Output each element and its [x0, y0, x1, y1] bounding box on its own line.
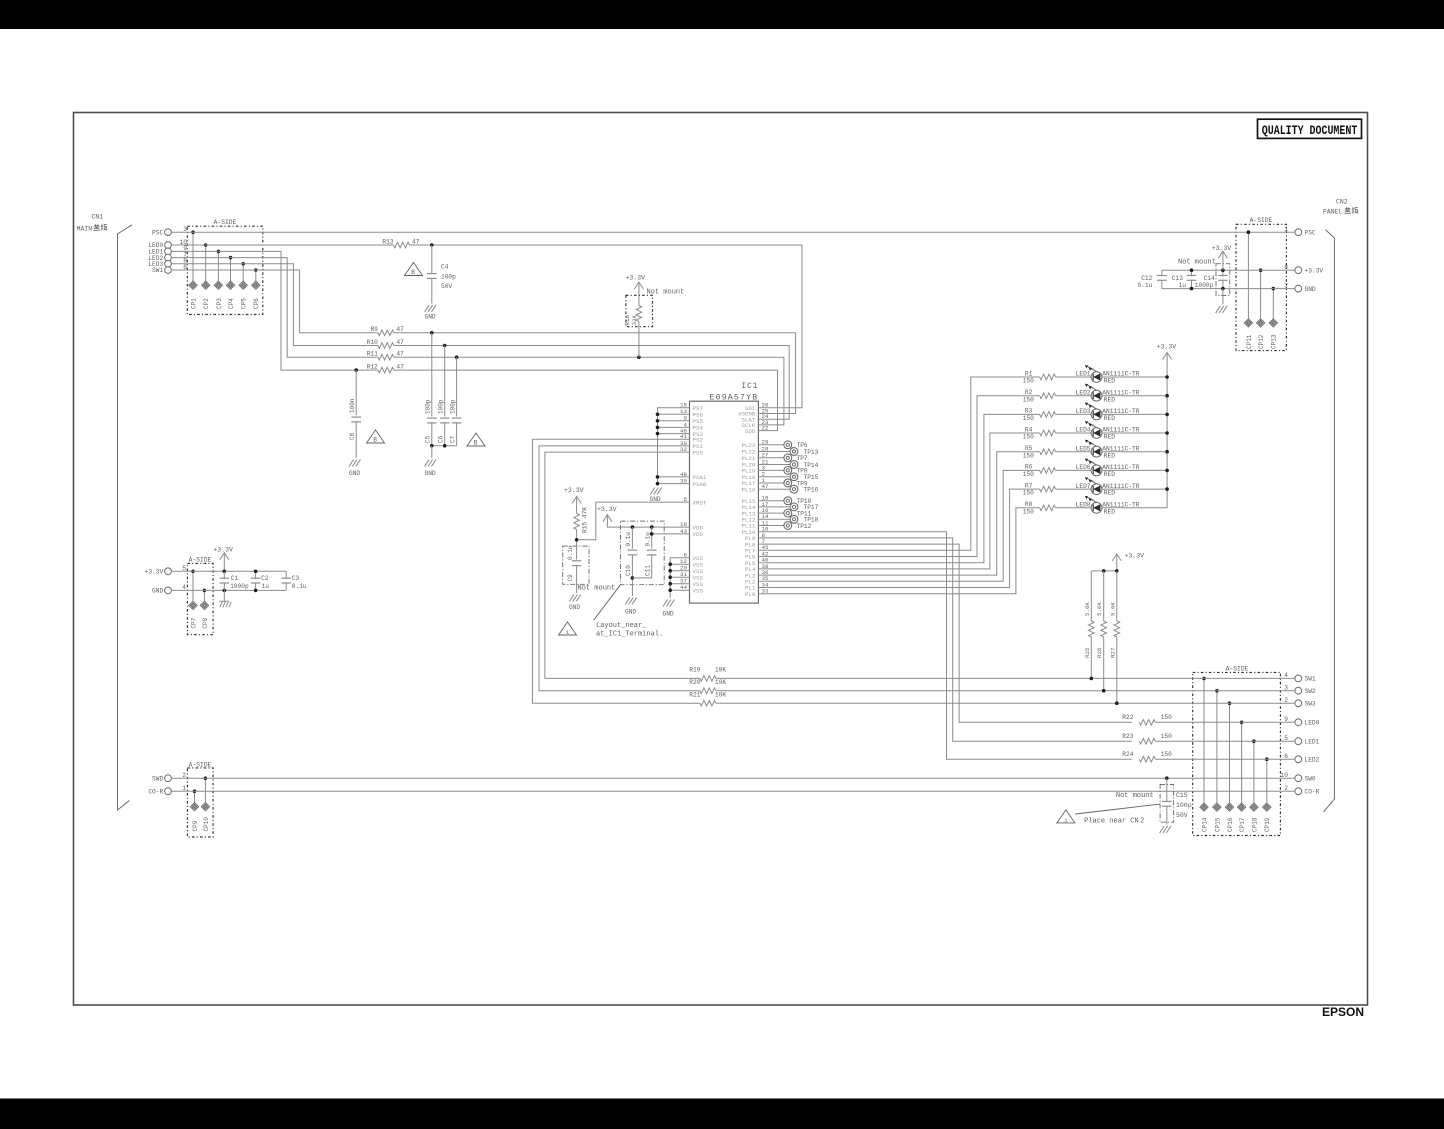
svg-text:SW1: SW1 — [1305, 676, 1316, 683]
svg-text:0.1u: 0.1u — [1138, 282, 1153, 289]
node PSC-CP11 junction — [1247, 230, 1251, 234]
resistor R11 — [378, 354, 394, 360]
svg-text:RED: RED — [1104, 508, 1115, 515]
svg-text:CP12: CP12 — [1258, 334, 1265, 349]
svg-text:5.6K: 5.6K — [1084, 602, 1091, 616]
svg-text:47: 47 — [396, 339, 404, 346]
wire LED0 row to CN2 — [1155, 721, 1295, 723]
svg-text:+3.3V: +3.3V — [564, 487, 584, 494]
warning triangle 1 place near CN2 — [1057, 810, 1075, 823]
svg-text:100p: 100p — [449, 399, 456, 414]
wire PL9 to LED1 row — [758, 538, 1131, 741]
wire PS1 to SW2 row — [539, 446, 700, 691]
IC U1 E09A57YB body — [690, 401, 759, 603]
svg-text:VSS: VSS — [693, 587, 704, 594]
svg-text:PS0: PS0 — [693, 449, 704, 456]
svg-text:C14: C14 — [1204, 275, 1215, 282]
test point TP16 — [758, 488, 790, 490]
svg-text:MAIN: MAIN — [77, 226, 93, 233]
test pad CP15 — [1216, 691, 1218, 803]
svg-text:R13: R13 — [382, 238, 393, 245]
svg-text:TP12: TP12 — [797, 523, 812, 530]
svg-text:CP13: CP13 — [1271, 334, 1278, 349]
wire R7 to LED7 — [1056, 488, 1092, 490]
svg-text:GND: GND — [425, 314, 436, 321]
svg-text:GND: GND — [650, 496, 661, 503]
svg-text:TP16: TP16 — [804, 487, 819, 494]
svg-text:TP15: TP15 — [804, 474, 819, 481]
capacitor C3 — [285, 571, 287, 579]
resistor R4 150 — [1040, 430, 1056, 436]
ground bar below C1 — [219, 601, 231, 607]
resistor R7 150 — [1040, 486, 1056, 492]
capacitor C2 — [255, 571, 257, 579]
svg-text:A-SIDE: A-SIDE — [189, 761, 212, 768]
A-SIDE test-pad box (CP11-CP13) — [1236, 224, 1286, 350]
ground below VSS bus — [663, 600, 674, 607]
schematic border frame — [74, 113, 1368, 1006]
capacitor C8 — [355, 370, 357, 415]
svg-text:CO-R: CO-R — [148, 788, 163, 795]
svg-text:GND: GND — [349, 470, 360, 477]
svg-text:LED7: LED7 — [1076, 483, 1091, 490]
resistor R16 33K — [638, 297, 640, 306]
resistor R26 5.6K — [1103, 571, 1105, 621]
svg-text:C5: C5 — [425, 435, 432, 443]
test point TP13 — [758, 451, 790, 453]
svg-text:A-SIDE: A-SIDE — [214, 219, 237, 226]
ground below C4 — [425, 305, 436, 312]
test pad CP11 — [1247, 232, 1249, 318]
CN1 pin 8 LED3 — [165, 260, 172, 267]
resistor R12 — [378, 367, 394, 373]
test pad CP6 — [255, 270, 257, 281]
test pad CP9 — [194, 791, 196, 802]
svg-text:B: B — [474, 440, 478, 447]
capacitor C7 — [456, 357, 458, 416]
svg-text:R8: R8 — [1025, 501, 1033, 508]
CN2 pin 7 GND — [1295, 285, 1302, 292]
wire R3 to LED3 — [1056, 413, 1092, 415]
wire PS0 to SW1 row — [545, 452, 700, 678]
svg-text:150: 150 — [1023, 471, 1034, 478]
CN2 pin 1 PSC — [1295, 229, 1302, 236]
svg-text:R23: R23 — [1122, 733, 1133, 740]
svg-text:R7: R7 — [1025, 482, 1033, 489]
svg-text:R2: R2 — [1025, 389, 1033, 396]
LED LED6 AN1111C-TR RED — [1091, 465, 1102, 476]
svg-text:0.1u: 0.1u — [567, 545, 574, 560]
svg-text:R6: R6 — [1025, 464, 1033, 471]
CN2 pin 5 LED1 — [1295, 738, 1302, 745]
wire IC R7 net riser — [758, 489, 1039, 587]
wire PS2 to SW3 row — [532, 439, 700, 703]
wire IC R2 net riser — [758, 396, 1039, 557]
svg-text:50V: 50V — [441, 283, 452, 290]
test pad CP8 — [203, 590, 205, 601]
svg-text:+3.3V: +3.3V — [145, 569, 164, 576]
svg-text:Layout_near_: Layout_near_ — [596, 622, 647, 630]
svg-text:150: 150 — [1023, 415, 1034, 422]
svg-text:GND: GND — [625, 609, 636, 616]
svg-text:150: 150 — [1161, 751, 1172, 758]
wire R1 to LED1 — [1056, 376, 1092, 378]
CN1 pin 7 LED2 — [165, 254, 172, 261]
svg-text:R1: R1 — [1025, 370, 1033, 377]
svg-text:+3.3V: +3.3V — [626, 275, 646, 282]
svg-text:Not mount: Not mount — [1178, 259, 1216, 267]
svg-text:PSC: PSC — [152, 229, 163, 236]
svg-text:R27: R27 — [1109, 647, 1116, 658]
resistor R10 — [378, 343, 394, 349]
ground below C9 — [569, 595, 580, 602]
capacitor C11 — [651, 527, 653, 549]
svg-text:LED5: LED5 — [1076, 445, 1091, 452]
LED LED4 AN1111C-TR RED — [1091, 428, 1102, 439]
test point TP12 — [758, 525, 784, 527]
wire SWD net (CN1 pin2 to CN2 SW0) — [171, 777, 1295, 779]
svg-text:CO-R: CO-R — [1305, 788, 1320, 795]
svg-text:A-SIDE: A-SIDE — [189, 557, 212, 564]
svg-text:RED: RED — [1104, 396, 1115, 403]
node R10-C6 junction — [443, 344, 447, 348]
connector CN1 bracket — [118, 225, 133, 810]
resistor R20 10K — [700, 688, 716, 694]
resistor R27 5.6K — [1116, 571, 1118, 621]
svg-text:1000p: 1000p — [230, 583, 249, 590]
svg-text:RED: RED — [1104, 415, 1115, 422]
svg-text:E09A57YB: E09A57YB — [709, 393, 758, 402]
svg-text:SWD: SWD — [152, 775, 163, 782]
svg-text:PL0: PL0 — [745, 591, 756, 598]
svg-text:Not mount: Not mount — [578, 585, 616, 593]
CN2 pin 4 SW1 — [1295, 675, 1302, 682]
test point TP15 — [758, 476, 790, 478]
CN2 pin 2 CO-R — [1295, 788, 1302, 795]
svg-text:C10: C10 — [625, 565, 632, 576]
test pad CP18 — [1253, 741, 1255, 803]
svg-text:Not mount: Not mount — [1116, 792, 1154, 800]
wire LED +3.3V rail — [1166, 353, 1168, 508]
svg-text:C7: C7 — [449, 435, 456, 443]
wire IC R4 net riser — [758, 433, 1039, 569]
svg-text:+3.3V: +3.3V — [1305, 267, 1324, 274]
wire LED0/SDI net: CN1 pin10 through R13 to IC SDI — [171, 244, 393, 246]
CN2 pin 9 LED0 — [1295, 719, 1302, 726]
svg-text:CP10: CP10 — [203, 817, 210, 832]
svg-text:LED3: LED3 — [1076, 408, 1091, 415]
resistor R22 150 — [1139, 720, 1155, 726]
ground below PSA bus — [650, 488, 661, 495]
resistor R21 10K — [700, 700, 716, 706]
svg-text:LED2: LED2 — [1076, 389, 1091, 396]
svg-text:CP8: CP8 — [202, 617, 209, 628]
wire SW1/XSENB net: CN1 pin6 to IC XSENB — [171, 270, 378, 333]
resistor R23 150 — [1139, 738, 1155, 744]
LED LED1 AN1111C-TR RED — [1091, 372, 1102, 383]
test pad CP5 — [242, 264, 244, 281]
test pad CP3 — [217, 251, 219, 281]
svg-text:GND: GND — [152, 588, 163, 595]
svg-text:TP14: TP14 — [804, 462, 819, 469]
LED LED3 AN1111C-TR RED — [1091, 409, 1102, 420]
test pad CP1 — [192, 232, 194, 281]
wire IC R5 net riser — [758, 452, 1039, 575]
wire IC R1 net riser — [758, 377, 1039, 550]
svg-text:R26: R26 — [1096, 647, 1103, 658]
svg-text:QUALITY DOCUMENT: QUALITY DOCUMENT — [1262, 123, 1358, 138]
svg-text:EPSON: EPSON — [1322, 1005, 1364, 1019]
test point TP7 — [758, 457, 784, 459]
svg-text:XRST: XRST — [693, 499, 707, 506]
svg-text:0.1u: 0.1u — [644, 532, 651, 547]
test point TP6 — [758, 444, 784, 446]
svg-text:0.1u: 0.1u — [625, 532, 632, 547]
wire PL10 to LED2 row — [758, 532, 1131, 760]
ground below C5-C7 — [425, 460, 436, 467]
svg-text:1u: 1u — [1179, 282, 1187, 289]
svg-text:CP19: CP19 — [1264, 817, 1271, 832]
ground below C14 — [1216, 306, 1227, 313]
test pad CP4 — [230, 258, 232, 282]
capacitor C10 — [631, 527, 633, 549]
wire LED7 to +3.3V rail — [1102, 488, 1167, 490]
svg-text:LED0: LED0 — [1305, 720, 1320, 727]
svg-text:100p: 100p — [425, 399, 432, 414]
svg-text:100p: 100p — [437, 399, 444, 414]
svg-text:RED: RED — [1104, 471, 1115, 478]
svg-text:SW0: SW0 — [1305, 775, 1316, 782]
svg-text:150: 150 — [1023, 434, 1034, 441]
svg-text:CP6: CP6 — [253, 298, 260, 309]
test point TP8 — [758, 469, 784, 471]
svg-text:33K: 33K — [631, 315, 638, 326]
wire PS7-PS3 common bus — [658, 408, 690, 486]
LED LED2 AN1111C-TR RED — [1091, 390, 1102, 401]
svg-text:at_IC1_Terminal.: at_IC1_Terminal. — [596, 631, 663, 639]
svg-text:CP7: CP7 — [190, 617, 197, 628]
wire LED3 to +3.3V rail — [1102, 413, 1167, 415]
wire SW2 row to CN2 — [716, 690, 1295, 692]
svg-text:150: 150 — [1023, 452, 1034, 459]
svg-text:C1: C1 — [231, 575, 239, 582]
wire SW3 row to CN2 — [716, 702, 1295, 704]
svg-text:C9: C9 — [567, 574, 574, 582]
test pad CP12 — [1260, 270, 1262, 318]
CN1 pin 1 CO-R — [165, 788, 172, 795]
svg-text:CN2: CN2 — [1336, 199, 1348, 206]
svg-text:RED: RED — [1104, 434, 1115, 441]
resistor R13 — [394, 242, 410, 248]
warning triangle 1 layout note — [559, 622, 577, 635]
A-SIDE test-pad box (CP14-CP19) — [1193, 672, 1281, 835]
wire LED3/SLAT net: CN1 pin8 to IC SLAT — [171, 264, 378, 346]
test pad CP16 — [1229, 703, 1231, 803]
svg-text:C15: C15 — [1176, 792, 1188, 799]
svg-text:150: 150 — [1023, 378, 1034, 385]
svg-text:CP15: CP15 — [1214, 817, 1221, 832]
capacitor C12 — [1161, 270, 1163, 276]
wire XRST net — [577, 502, 690, 540]
node R15-XRST junction — [575, 538, 579, 542]
wire IC R8 net riser — [758, 508, 1039, 594]
wire LED4 to +3.3V rail — [1102, 432, 1167, 434]
svg-text:CP1: CP1 — [190, 298, 197, 309]
svg-text:RED: RED — [1104, 452, 1115, 459]
CN1 pin 9 LED1 — [165, 248, 172, 255]
not-mount dash-dot box around C9 — [563, 546, 589, 584]
svg-text:5.6K: 5.6K — [1109, 602, 1116, 616]
wire LED1 to +3.3V rail — [1102, 376, 1167, 378]
CN2 pin 8 +3.3V — [1295, 267, 1302, 274]
svg-text:+3.3V: +3.3V — [1125, 553, 1145, 560]
svg-text:SW2: SW2 — [1305, 688, 1316, 695]
resistor R6 150 — [1040, 468, 1056, 474]
test point TP9 — [758, 482, 784, 484]
LED LED8 AN1111C-TR RED — [1091, 502, 1102, 513]
svg-text:RED: RED — [1104, 378, 1115, 385]
svg-text:0.1u: 0.1u — [292, 583, 307, 590]
node SWD-C15 junction — [1165, 776, 1169, 780]
svg-text:VDD: VDD — [693, 531, 704, 538]
svg-text:100p: 100p — [1176, 802, 1192, 809]
svg-text:1u: 1u — [262, 583, 270, 590]
test pad CP13 — [1272, 289, 1274, 319]
wire C1 ground stub — [223, 590, 225, 601]
not-mount dashed box around R16 — [626, 295, 653, 326]
node R11-C7 junction — [455, 355, 459, 359]
test point TP11 — [758, 512, 784, 514]
CN2 pin 10 SW0 — [1295, 775, 1302, 782]
ground below C15 — [1160, 826, 1171, 833]
test pad CP14 — [1203, 678, 1205, 802]
test pad CP7 — [192, 571, 194, 601]
svg-text:B: B — [373, 437, 377, 444]
svg-text:TP18: TP18 — [804, 517, 819, 524]
wire SW1 row to CN2 — [716, 677, 1295, 679]
EMC mark B near C4 — [405, 263, 423, 276]
svg-text:GND: GND — [425, 470, 436, 477]
svg-text:R19: R19 — [689, 667, 700, 674]
svg-text:R25: R25 — [1084, 647, 1091, 658]
QUALITY DOCUMENT title box — [1258, 119, 1362, 138]
CN1 pin 2 SWD — [165, 775, 172, 782]
svg-text:CP14: CP14 — [1201, 817, 1208, 832]
wire +3.3V rail to pull-ups — [1091, 570, 1117, 572]
svg-text:150: 150 — [1023, 396, 1034, 403]
ground below C10 — [625, 598, 636, 605]
svg-text:LED8: LED8 — [1076, 502, 1091, 509]
wire PSA0 stub — [658, 483, 690, 485]
node R11-R16 junction — [637, 355, 641, 359]
svg-text:A-SIDE: A-SIDE — [1226, 665, 1249, 672]
resistor R25 5.6K — [1090, 571, 1092, 621]
LED LED5 AN1111C-TR RED — [1091, 446, 1102, 457]
svg-text:CP18: CP18 — [1251, 817, 1258, 832]
svg-text:PANEL: PANEL — [1323, 209, 1343, 216]
svg-text:R9: R9 — [370, 326, 378, 333]
connector CN2 bracket — [1324, 230, 1335, 812]
resistor R3 150 — [1040, 412, 1056, 418]
resistor R15 47K — [574, 514, 580, 530]
svg-text:C12: C12 — [1141, 275, 1152, 282]
svg-text:150: 150 — [1023, 490, 1034, 497]
LED LED7 AN1111C-TR RED — [1091, 484, 1102, 495]
node R12-C8 junction — [354, 368, 358, 372]
svg-text:47: 47 — [396, 351, 404, 358]
svg-text:+3.3V: +3.3V — [213, 547, 233, 554]
test pad CP2 — [205, 245, 207, 281]
wire VDD net — [607, 515, 689, 527]
wire LED5 to +3.3V rail — [1102, 451, 1167, 453]
CN1 pin 6 SW1 — [165, 267, 172, 274]
svg-text:R16: R16 — [624, 315, 631, 326]
resistor R2 150 — [1040, 393, 1056, 399]
svg-text:CP2: CP2 — [203, 298, 210, 309]
CN1 pin 5 +3.3V — [165, 568, 172, 575]
svg-text:R22: R22 — [1122, 714, 1133, 721]
wire CN1 +3.3V row — [171, 570, 286, 572]
svg-text:150: 150 — [1161, 714, 1172, 721]
svg-text:R11: R11 — [367, 351, 378, 358]
svg-text:R21: R21 — [689, 692, 700, 699]
CN2 pin 3 SW2 — [1295, 687, 1302, 694]
svg-text:C11: C11 — [644, 565, 651, 576]
wire LED6 to +3.3V rail — [1102, 469, 1167, 471]
svg-text:A-SIDE: A-SIDE — [1250, 217, 1273, 224]
svg-text:R24: R24 — [1122, 751, 1133, 758]
svg-text:GND: GND — [569, 604, 580, 611]
test point TP17 — [758, 506, 790, 508]
svg-text:50V: 50V — [1176, 812, 1188, 819]
resistor R19 10K — [700, 676, 716, 682]
wire IC R6 net riser — [758, 470, 1039, 581]
svg-text:R12: R12 — [367, 364, 378, 371]
A-SIDE test-pad box (CP9-CP10) — [187, 768, 213, 837]
svg-text:C6: C6 — [437, 435, 444, 443]
svg-text:47: 47 — [396, 364, 404, 371]
wire R5 to LED5 — [1056, 451, 1092, 453]
wire CO-R net (CN1 pin1 to CN2 CO-R) — [171, 790, 1295, 792]
svg-text:CP3: CP3 — [216, 298, 223, 309]
svg-text:SW3: SW3 — [1305, 700, 1316, 707]
svg-text:CP16: CP16 — [1227, 817, 1234, 832]
wire R6 to LED6 — [1056, 469, 1092, 471]
svg-text:GND: GND — [1305, 286, 1316, 293]
wire LED2 row to CN2 — [1155, 758, 1295, 760]
wire LED2 to +3.3V rail — [1102, 395, 1167, 397]
svg-text:R3: R3 — [1025, 408, 1033, 415]
not-mount dash-dot box around C14 — [1216, 264, 1230, 296]
test point TP14 — [758, 464, 790, 466]
resistor R24 150 — [1139, 756, 1155, 762]
svg-text:R4: R4 — [1025, 426, 1033, 433]
svg-text:CN1: CN1 — [92, 214, 104, 221]
svg-text:CP5: CP5 — [241, 298, 248, 309]
svg-text:TP17: TP17 — [804, 504, 819, 511]
A-SIDE test-pad box (CP7-CP8) — [187, 563, 213, 634]
svg-text:RED: RED — [1104, 490, 1115, 497]
capacitor C6 — [444, 346, 446, 417]
wire LED2/SCLK net: CN1 pin7 to IC SCLK — [171, 258, 378, 358]
CN1 pin 10 LED0 — [165, 242, 172, 249]
test pad CP10 — [204, 778, 206, 802]
svg-text:LED1: LED1 — [1305, 738, 1320, 745]
svg-text:+3.3V: +3.3V — [597, 506, 617, 513]
ground below C8 — [349, 460, 360, 467]
capacitor C5 — [431, 333, 433, 417]
svg-text:C4: C4 — [441, 264, 449, 271]
